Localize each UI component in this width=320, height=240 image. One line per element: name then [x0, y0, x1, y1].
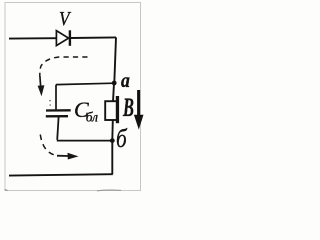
- node a junction dot: [112, 81, 117, 86]
- wire: top-left horizontal to diode anode: [9, 37, 56, 39]
- component B right contact bar: [116, 96, 119, 123]
- wire: node a down to component B: [113, 83, 114, 102]
- node b junction dot: [110, 138, 115, 143]
- label b (node): [116, 124, 127, 154]
- label a (node): [121, 68, 130, 93]
- scan speck near capacitor: [49, 100, 51, 102]
- loop 2 arrow shaft: [57, 155, 68, 157]
- wire: component B down to node b: [111, 120, 114, 140]
- wire: diode cathode to top-right corner: [71, 36, 116, 39]
- wire: bottom rail horizontal: [9, 174, 113, 175]
- dashed current loop 1 (top, counter-clockwise, arrow down): [40, 57, 88, 76]
- wire: node b down to bottom rail: [111, 141, 113, 175]
- loop 1 arrow shaft: [39, 76, 42, 89]
- scan speck near capacitor: [49, 104, 51, 106]
- bold arrowhead: [134, 115, 144, 130]
- diode V: [56, 30, 70, 46]
- label Cbl (capacitor): [74, 97, 101, 123]
- dashed current loop 2 (bottom, arrow right): [40, 135, 58, 156]
- loop 1 arrowhead (down): [38, 85, 45, 96]
- capacitor Cbl top plate: [46, 109, 71, 111]
- capacitor Cbl bottom plate: [46, 115, 68, 117]
- wire: right vertical from top corner down to node a: [114, 37, 116, 83]
- bold current arrow beside B (down): [137, 90, 140, 117]
- figure frame (decorative): [5, 3, 141, 191]
- wire: capacitor bottom branch (capacitor to node b): [57, 140, 112, 142]
- loop 2 arrowhead (right): [68, 153, 79, 160]
- wire: capacitor top lead: [55, 85, 57, 110]
- wire: capacitor bottom lead: [57, 117, 58, 140]
- component B rectangle: [105, 101, 117, 120]
- wire: capacitor top branch (node a to capacitor): [56, 83, 114, 84]
- label V (diode): [59, 8, 70, 31]
- label B (component): [123, 93, 134, 123]
- frame bottom darker squiggle (scan): [97, 189, 121, 192]
- frame bottom-left corner mark (scan): [5, 190, 8, 191]
